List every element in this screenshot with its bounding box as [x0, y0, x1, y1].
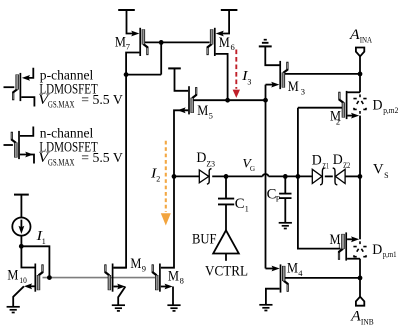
- svg-text:Z3: Z3: [206, 160, 215, 169]
- svg-text:GS.MAX: GS.MAX: [48, 100, 75, 110]
- svg-text:7: 7: [126, 42, 130, 52]
- svg-text:3: 3: [301, 87, 305, 97]
- wire M4 source to ground: [266, 289, 280, 305]
- svg-text:4: 4: [298, 268, 303, 278]
- transistor M2: [339, 91, 360, 119]
- wire current source to M10 drain: [21, 236, 34, 268]
- node mirror gates: [159, 40, 164, 45]
- VDD rail bar above M6: [221, 9, 238, 11]
- wire VG to C1 top plate: [225, 176, 227, 198]
- wire M3 source / M4 drain column: [265, 85, 267, 269]
- svg-text:= 5.5 V: = 5.5 V: [81, 151, 123, 166]
- transistor M9: [105, 264, 126, 292]
- svg-text:2: 2: [156, 174, 160, 183]
- body diode Dpm2 dashed: [353, 94, 366, 113]
- ground under CP: [279, 223, 292, 229]
- svg-text:BUF: BUF: [192, 232, 217, 248]
- svg-text:Z2: Z2: [343, 161, 350, 170]
- wire DZ1 to DZ2 cathodes: [325, 175, 333, 177]
- svg-text:9: 9: [142, 264, 146, 274]
- svg-text:M: M: [115, 34, 126, 50]
- wire VDD to M5 drain: [175, 68, 189, 90]
- current source I1: [12, 218, 30, 236]
- svg-text:D: D: [312, 153, 322, 169]
- node VS: [358, 174, 363, 179]
- node gate bus: [47, 275, 52, 280]
- svg-text:G: G: [250, 165, 255, 173]
- wire M6 drain down to I3 node: [216, 54, 228, 100]
- node I3: [225, 98, 230, 103]
- svg-text:M: M: [288, 79, 299, 95]
- positive rail symbol above M3: [259, 40, 272, 47]
- wire hop over M3/M4 column: [263, 174, 269, 176]
- svg-text:S: S: [384, 171, 388, 180]
- wire M5 gate rail to M3 source node: [193, 99, 265, 101]
- node bias: [124, 72, 129, 77]
- wire C1 bottom to buffer output: [225, 204, 227, 230]
- svg-text:M: M: [219, 35, 230, 51]
- svg-text:INA: INA: [360, 36, 373, 45]
- wire M10 source to ground: [13, 286, 24, 307]
- svg-text:8: 8: [180, 275, 184, 285]
- VDD rail bar above I1: [14, 194, 29, 196]
- svg-text:P: P: [276, 194, 281, 203]
- wire VG node to DZ3 anode: [174, 175, 199, 177]
- wire VDD to M6 source with arrow: [222, 10, 229, 34]
- wire M7 drain down-left: [126, 53, 139, 75]
- svg-text:Z1: Z1: [322, 162, 329, 171]
- svg-text:6: 6: [231, 42, 235, 52]
- wire mirror diode connection: [160, 42, 162, 74]
- transistor M4: [266, 264, 288, 292]
- wire rail to M3 drain: [265, 46, 279, 65]
- svg-text:1: 1: [337, 240, 341, 250]
- capacitor C1: [218, 199, 234, 205]
- transistor M10: [24, 264, 43, 292]
- wire M1 source to AINB node: [359, 259, 361, 297]
- svg-text:C: C: [235, 196, 245, 212]
- node M3 source: [263, 98, 268, 103]
- wire M8 source to ground: [172, 287, 174, 306]
- svg-text:1: 1: [42, 237, 46, 246]
- transistor M7: [131, 28, 147, 56]
- node CP: [283, 174, 288, 179]
- wire I1 node to gate bus: [21, 246, 49, 277]
- node VG left: [172, 174, 177, 179]
- transistor M8: [153, 176, 174, 291]
- svg-text:p,m2: p,m2: [383, 106, 398, 115]
- zener diode DZ1: [312, 168, 324, 185]
- terminal AINA: [356, 48, 364, 57]
- wire VS rail M2 to M1: [359, 116, 361, 240]
- svg-text:D: D: [333, 152, 343, 168]
- wire DZ2 anode to VS node: [345, 175, 360, 177]
- wire M7 gate to M6 gate: [145, 41, 210, 43]
- legend p-channel LDMOSFET symbol: [4, 68, 35, 107]
- wire M2 gate horizontal: [298, 107, 343, 109]
- svg-text:GS.MAX: GS.MAX: [48, 158, 75, 168]
- svg-text:= 5.5 V: = 5.5 V: [81, 93, 123, 108]
- svg-text:10: 10: [19, 275, 26, 285]
- wire M4 gate to AINB node: [285, 277, 360, 279]
- wire gate column VG to M1 gate: [298, 108, 341, 249]
- svg-text:D: D: [196, 150, 206, 166]
- svg-text:M: M: [168, 268, 179, 284]
- svg-text:M: M: [130, 256, 141, 272]
- wire buffer input stub: [225, 254, 227, 261]
- zener diode DZ2: [333, 168, 345, 185]
- zener diode DZ3: [199, 169, 211, 185]
- wire DZ3 cathode to C1 node: [212, 175, 262, 177]
- transistor M3: [266, 61, 288, 89]
- svg-text:V: V: [373, 162, 384, 178]
- svg-text:VCTRL: VCTRL: [205, 263, 248, 279]
- capacitor CP: [279, 194, 291, 199]
- svg-text:D: D: [373, 98, 383, 114]
- svg-text:5: 5: [209, 111, 213, 121]
- wire VDD to M7 source with arrow: [127, 10, 133, 34]
- node AINB: [358, 276, 363, 281]
- node I1: [19, 244, 24, 249]
- wire VDD to current source: [20, 195, 22, 218]
- terminal AINB: [356, 297, 364, 306]
- transistor M1: [339, 232, 360, 260]
- svg-text:M: M: [287, 261, 298, 277]
- node C1: [224, 174, 229, 179]
- wire M9 source to ground: [118, 287, 125, 306]
- svg-text:D: D: [372, 242, 382, 258]
- VDD rail bar above M7: [118, 9, 135, 11]
- svg-text:3: 3: [247, 78, 251, 87]
- transistor M5: [189, 86, 196, 114]
- wire AINA to node: [359, 56, 361, 92]
- legend n-channel LDMOSFET symbol: [4, 127, 35, 164]
- wire bias node horizontal: [126, 74, 161, 76]
- svg-text:2: 2: [336, 116, 340, 126]
- ground under M9: [112, 305, 125, 311]
- svg-text:INB: INB: [361, 317, 374, 326]
- wire to DZ1 anode: [269, 175, 313, 177]
- current arrow I3 red dashed: [233, 50, 240, 98]
- VDD rail bar above M5: [168, 67, 181, 69]
- ground under M10: [7, 307, 20, 313]
- current arrow I2 orange dashed: [161, 141, 171, 226]
- wire M5 source down to VG node: [174, 110, 188, 176]
- wire VG to CP top plate: [284, 176, 286, 193]
- body diode Dpm1 dashed: [353, 241, 366, 256]
- ground under M4: [259, 305, 272, 311]
- wire long vertical bias line to M9 drain: [114, 75, 127, 268]
- node AINA: [358, 72, 363, 77]
- wire CP bottom to ground: [284, 198, 286, 223]
- ground under M8: [167, 305, 180, 311]
- gray gate bus wire: [43, 277, 156, 279]
- svg-text:M: M: [197, 103, 208, 119]
- transistor M6: [208, 28, 224, 56]
- svg-text:1: 1: [245, 205, 249, 214]
- svg-text:M: M: [7, 267, 18, 283]
- node gate column: [296, 174, 301, 179]
- svg-text:p,m1: p,m1: [383, 250, 397, 259]
- buffer BUF triangle: [213, 230, 239, 253]
- wire M3 gate to AINA node: [285, 73, 360, 75]
